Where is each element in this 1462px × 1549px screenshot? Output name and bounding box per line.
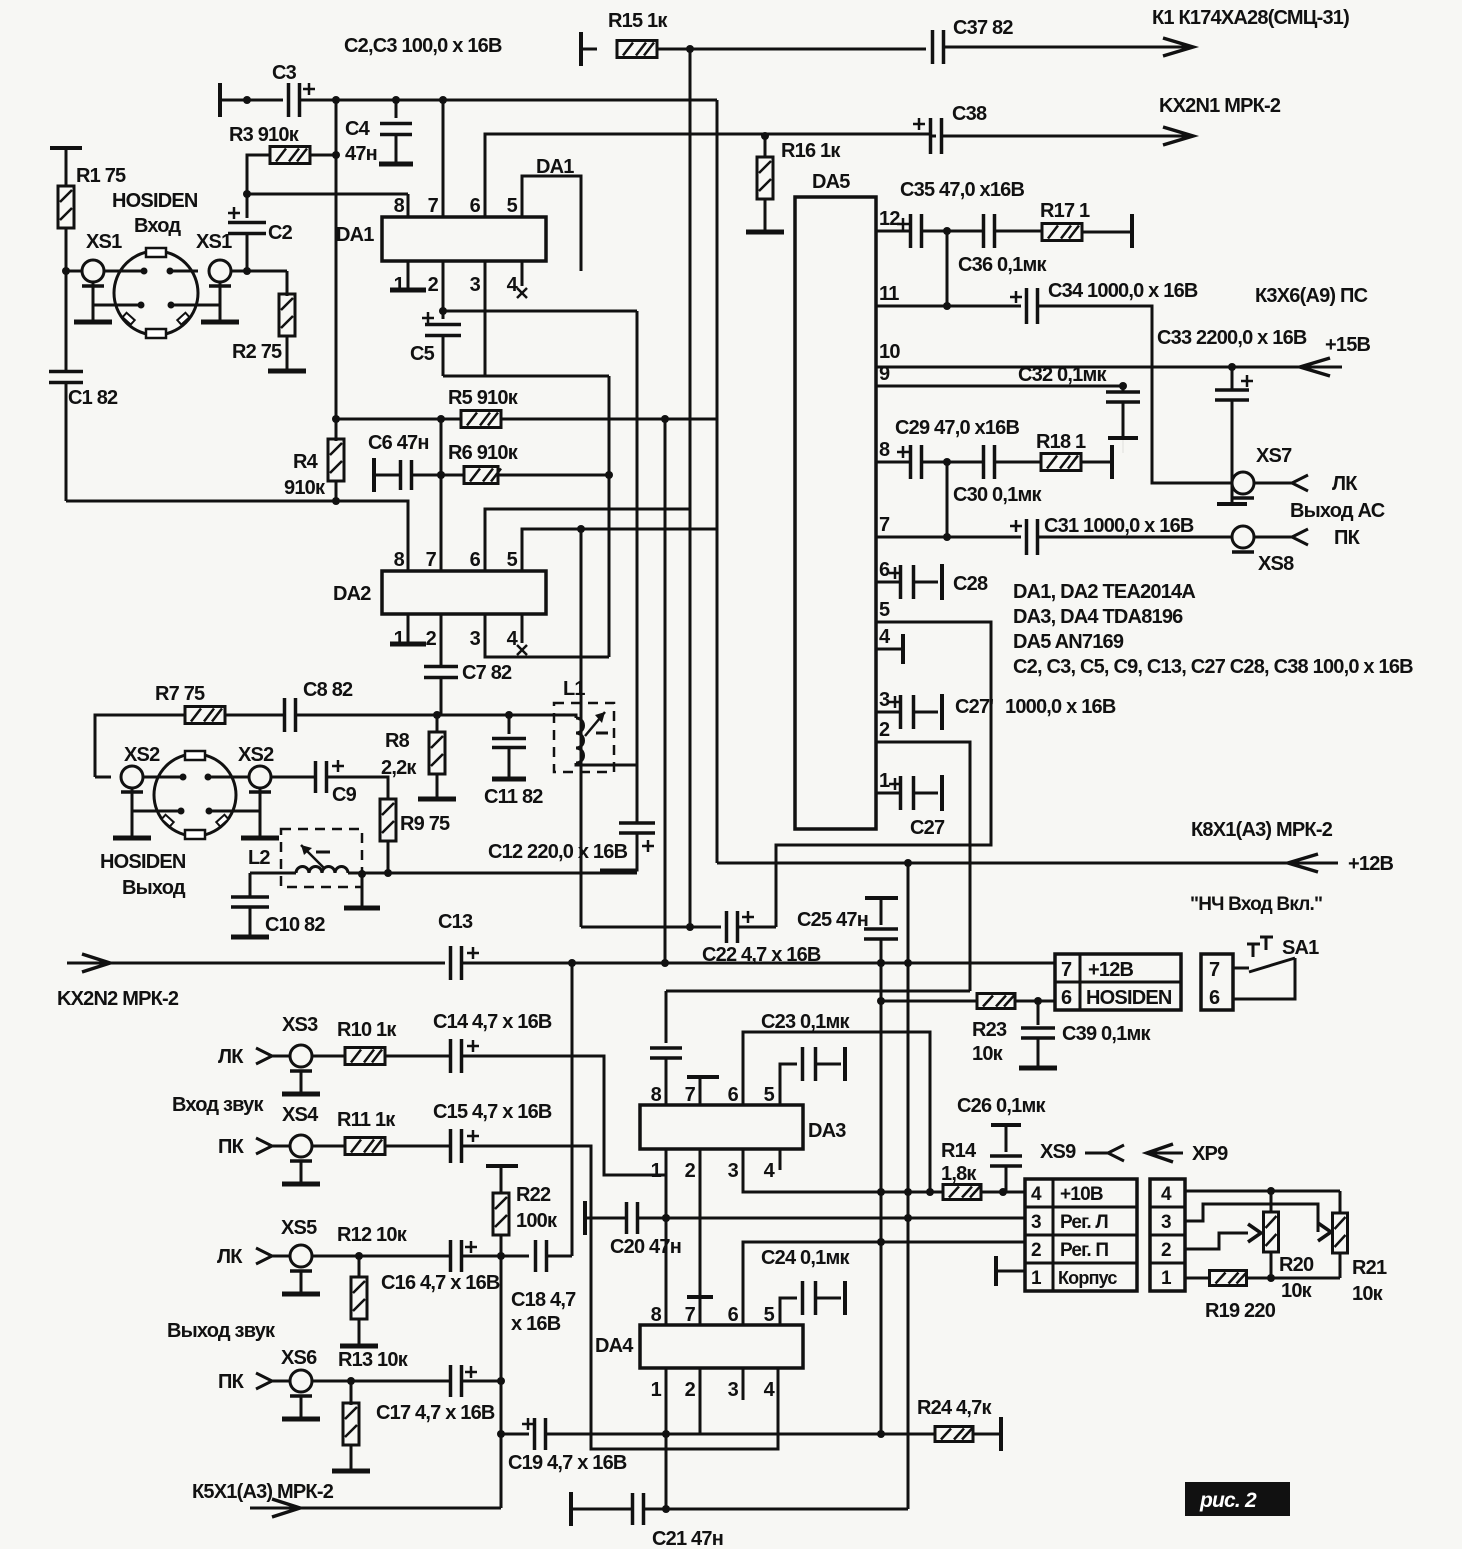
resistor R24 bbox=[935, 1427, 973, 1442]
resistor R10 bbox=[312, 1055, 345, 1058]
svg-text:XS9: XS9 bbox=[1040, 1141, 1076, 1163]
svg-text:XS3: XS3 bbox=[282, 1014, 318, 1036]
svg-text:11: 11 bbox=[879, 283, 899, 305]
DIN upper pins bbox=[141, 268, 148, 275]
svg-text:R24 4,7к: R24 4,7к bbox=[917, 1397, 992, 1419]
svg-text:HOSIDEN: HOSIDEN bbox=[100, 851, 186, 873]
svg-text:HOSIDEN: HOSIDEN bbox=[1086, 987, 1172, 1009]
svg-text:7: 7 bbox=[879, 514, 890, 536]
svg-text:100к: 100к bbox=[516, 1210, 558, 1232]
svg-text:К1 К174ХА28(СМЦ-31): К1 К174ХА28(СМЦ-31) bbox=[1152, 7, 1349, 29]
capacitor C24 bbox=[801, 1281, 805, 1315]
wire lower pins to grounds bbox=[132, 810, 181, 813]
DA5 pin7 wire to C31 bbox=[876, 536, 1021, 539]
svg-text:1000,0 х 16В: 1000,0 х 16В bbox=[1005, 696, 1116, 718]
connector XS2 DIN socket bbox=[154, 754, 236, 836]
svg-text:L2: L2 bbox=[248, 847, 270, 869]
DA4 pin 6 riser to connector row2 bbox=[743, 1242, 1025, 1325]
svg-text:DA3: DA3 bbox=[808, 1120, 846, 1142]
DA2 pin 3 bbox=[485, 614, 609, 657]
svg-text:C17 4,7 х 16В: C17 4,7 х 16В bbox=[376, 1402, 495, 1424]
svg-text:C3: C3 bbox=[272, 62, 297, 84]
svg-text:KX2N2 МРК-2: KX2N2 МРК-2 bbox=[57, 988, 179, 1010]
wire C1 row to DA2 pin8 bbox=[66, 501, 408, 571]
node XS1 row wire bbox=[66, 270, 82, 273]
capacitor C28 bbox=[899, 565, 903, 599]
svg-text:2: 2 bbox=[685, 1160, 696, 1182]
svg-text:C5: C5 bbox=[410, 343, 435, 365]
svg-text:C21 47н: C21 47н bbox=[652, 1528, 723, 1549]
ground under XS1 left bbox=[74, 320, 112, 325]
DA4 pin 5 riser to C24 bbox=[780, 1298, 797, 1325]
svg-text:XS1: XS1 bbox=[196, 231, 232, 253]
ground under XS1 right bbox=[201, 320, 239, 325]
resistor R5 bbox=[336, 418, 461, 421]
wire lower-right pin to ground bbox=[171, 304, 220, 307]
terminal bar left of C20 bbox=[583, 1201, 587, 1235]
wire C13 to connector row7 bbox=[462, 962, 1055, 965]
wire DA1 pin2 node to V637 bbox=[443, 310, 637, 313]
capacitor C12 bbox=[636, 311, 639, 822]
DA5 pin9 wire bbox=[876, 385, 1123, 388]
svg-text:C18 4,7: C18 4,7 bbox=[511, 1289, 576, 1311]
svg-text:7: 7 bbox=[685, 1304, 696, 1326]
capacitor C4 bbox=[395, 100, 398, 118]
connector XS1 DIN socket bbox=[114, 251, 198, 335]
svg-text:R8: R8 bbox=[385, 730, 410, 752]
resistor R9 bbox=[380, 799, 396, 841]
terminal bar after R24 bbox=[999, 1417, 1003, 1451]
svg-text:6: 6 bbox=[470, 549, 481, 571]
svg-text:4: 4 bbox=[764, 1379, 776, 1401]
svg-text:+12В: +12В bbox=[1088, 959, 1134, 981]
wire V717 top rail down to +12V rail bbox=[716, 100, 719, 863]
+12V rail wire bbox=[717, 862, 1338, 865]
capacitor C22 bbox=[725, 911, 729, 943]
svg-text:DA5: DA5 bbox=[812, 171, 850, 193]
connector XS1 right jack bbox=[209, 260, 231, 282]
svg-text:7: 7 bbox=[426, 549, 437, 571]
terminal bar left of C6 bbox=[372, 458, 376, 492]
svg-text:3: 3 bbox=[470, 628, 481, 650]
capacitor C33 bbox=[1231, 367, 1234, 389]
inductor L2 dashed box bbox=[281, 829, 362, 887]
capacitor C6 bbox=[374, 474, 400, 477]
svg-text:C15 4,7 х 16В: C15 4,7 х 16В bbox=[433, 1101, 552, 1123]
capacitor C18 bbox=[534, 1240, 538, 1272]
svg-text:C4: C4 bbox=[345, 118, 371, 140]
wire C16 to node 501 bbox=[462, 1255, 529, 1258]
svg-text:R4: R4 bbox=[293, 451, 319, 473]
svg-text:HOSIDEN: HOSIDEN bbox=[112, 190, 198, 212]
svg-text:6: 6 bbox=[1209, 987, 1220, 1009]
svg-text:С31 1000,0 х 16В: С31 1000,0 х 16В bbox=[1044, 515, 1194, 537]
svg-text:3: 3 bbox=[1031, 1212, 1041, 1233]
wire XS1 left to DIN bbox=[104, 270, 146, 273]
svg-text:2: 2 bbox=[879, 719, 890, 741]
connector XS7 bbox=[1232, 472, 1254, 494]
wire V609 to DA2 pin3 wire bbox=[608, 376, 611, 657]
connector XS2 right jack bbox=[249, 766, 271, 788]
capacitor C38 bbox=[929, 118, 933, 154]
svg-text:XP9: XP9 bbox=[1192, 1143, 1228, 1165]
svg-text:R14: R14 bbox=[941, 1140, 977, 1162]
svg-text:R2 75: R2 75 bbox=[232, 341, 282, 363]
resistor R16 bbox=[761, 132, 769, 140]
DA2 pin 2 bbox=[440, 614, 443, 667]
svg-text:1: 1 bbox=[1031, 1268, 1042, 1289]
ground under R2 bbox=[268, 369, 306, 374]
svg-text:R16 1к: R16 1к bbox=[781, 140, 841, 162]
wire V501 bbox=[500, 1256, 503, 1434]
DA1 pin 5 riser to V581 bbox=[522, 176, 581, 271]
capacitor C39 bbox=[1037, 1001, 1040, 1025]
svg-text:10: 10 bbox=[879, 341, 900, 363]
svg-text:С30 0,1мк: С30 0,1мк bbox=[953, 484, 1042, 506]
svg-text:10к: 10к bbox=[972, 1043, 1004, 1065]
svg-text:3: 3 bbox=[1161, 1212, 1171, 1233]
svg-text:R9 75: R9 75 bbox=[400, 813, 450, 835]
connector box XP 7/6 bbox=[1201, 954, 1233, 1010]
capacitor C26 bbox=[991, 1123, 1021, 1127]
resistor R8 bbox=[436, 715, 439, 733]
capacitor C16 bbox=[449, 1240, 453, 1272]
svg-text:XS2: XS2 bbox=[238, 744, 274, 766]
svg-text:8: 8 bbox=[651, 1084, 662, 1106]
svg-text:3: 3 bbox=[728, 1379, 739, 1401]
svg-text:8: 8 bbox=[394, 549, 405, 571]
amplifier DA5 box bbox=[795, 197, 876, 829]
svg-text:Рег. П: Рег. П bbox=[1060, 1240, 1108, 1261]
svg-text:XS5: XS5 bbox=[281, 1217, 317, 1239]
svg-text:R17 1: R17 1 bbox=[1040, 200, 1090, 222]
connector XS1 left jack bbox=[82, 260, 104, 282]
svg-text:5: 5 bbox=[507, 549, 518, 571]
svg-text:R3 910к: R3 910к bbox=[229, 124, 300, 146]
svg-text:R20: R20 bbox=[1279, 1254, 1314, 1276]
capacitor C21 bbox=[571, 1508, 632, 1511]
svg-text:+10В: +10В bbox=[1060, 1184, 1103, 1205]
capacitor C8 bbox=[283, 698, 287, 732]
svg-text:47н: 47н bbox=[345, 143, 377, 165]
capacitor C15 bbox=[449, 1129, 453, 1163]
svg-text:+15В: +15В bbox=[1325, 334, 1371, 356]
svg-text:ПК: ПК bbox=[1334, 527, 1361, 549]
svg-text:3: 3 bbox=[728, 1160, 739, 1182]
DIN2 lower pins bbox=[178, 808, 185, 815]
resistor R22 bbox=[486, 1164, 518, 1168]
DA1 pin 8 bbox=[407, 194, 410, 217]
svg-text:ЛК: ЛК bbox=[1332, 473, 1358, 495]
DA2 pin 1 ground bbox=[407, 614, 410, 644]
DA1 pin 4 nc bbox=[521, 261, 524, 286]
svg-text:XS4: XS4 bbox=[282, 1104, 319, 1126]
svg-text:3: 3 bbox=[470, 274, 481, 296]
capacitor C14 bbox=[449, 1039, 453, 1073]
svg-text:2: 2 bbox=[426, 628, 437, 650]
wire C31 to XS8 bbox=[1038, 536, 1232, 539]
svg-text:XS2: XS2 bbox=[124, 744, 160, 766]
svg-text:6: 6 bbox=[470, 195, 481, 217]
svg-text:10к: 10к bbox=[1281, 1280, 1313, 1302]
XS9 XP9 mating symbols bbox=[1108, 1145, 1124, 1161]
svg-text:C14 4,7 х 16В: C14 4,7 х 16В bbox=[433, 1011, 552, 1033]
svg-text:R18 1: R18 1 bbox=[1036, 431, 1086, 453]
svg-text:ЛК: ЛК bbox=[218, 1046, 244, 1068]
L1 tuning arrow bbox=[585, 712, 605, 736]
DA2 pin 5 riser bbox=[522, 529, 717, 571]
svg-text:C20 47н: C20 47н bbox=[610, 1236, 681, 1258]
svg-text:7: 7 bbox=[1209, 959, 1220, 981]
svg-text:R12 10к: R12 10к bbox=[337, 1224, 408, 1246]
svg-text:Вход звук: Вход звук bbox=[172, 1094, 264, 1116]
svg-text:8: 8 bbox=[394, 195, 405, 217]
resistor R6 bbox=[464, 467, 498, 484]
svg-text:1: 1 bbox=[651, 1379, 662, 1401]
DA1 pin 2 bbox=[442, 261, 445, 311]
resistor R23 bbox=[877, 997, 885, 1005]
DA5 pin10 +15V rail bbox=[876, 366, 1342, 369]
svg-text:2: 2 bbox=[428, 274, 439, 296]
DA5 pin1 wire bbox=[876, 792, 901, 795]
wire L2 node to C12 bbox=[388, 872, 637, 875]
terminal bar after R17 bbox=[1130, 214, 1134, 248]
resistor R11 bbox=[312, 1145, 345, 1148]
svg-text:Выход звук: Выход звук bbox=[167, 1320, 276, 1342]
+12V arrow bbox=[1288, 854, 1318, 872]
wire C37 to K1 arrow bbox=[944, 46, 1193, 49]
capacitor C11 bbox=[508, 715, 511, 734]
svg-text:Выход: Выход bbox=[122, 877, 186, 899]
resistor R3 bbox=[270, 147, 310, 164]
svg-text:R7 75: R7 75 bbox=[155, 683, 205, 705]
capacitor C2 bbox=[246, 194, 249, 218]
capacitor C34 bbox=[1025, 288, 1029, 324]
svg-text:XS8: XS8 bbox=[1258, 553, 1294, 575]
XP9 row2 wire to R20 wiper bbox=[1185, 1233, 1248, 1249]
node wire C2 to DA1 pin8 bbox=[247, 193, 408, 196]
wire R3 left branch bbox=[247, 155, 270, 194]
capacitor C20 bbox=[585, 1217, 626, 1220]
svg-text:6: 6 bbox=[728, 1084, 739, 1106]
terminal bar left of C21 bbox=[569, 1492, 573, 1526]
svg-text:6: 6 bbox=[1061, 987, 1072, 1009]
svg-text:С35 47,0 х16В: С35 47,0 х16В bbox=[900, 179, 1024, 201]
svg-text:SA1: SA1 bbox=[1282, 937, 1319, 959]
svg-text:2: 2 bbox=[1161, 1240, 1171, 1261]
svg-text:К5Х1(А3) МРК-2: К5Х1(А3) МРК-2 bbox=[192, 1481, 334, 1503]
svg-text:C23 0,1мк: C23 0,1мк bbox=[761, 1011, 850, 1033]
KX2N2 input arrow wire bbox=[67, 962, 445, 965]
DIN2 upper pins bbox=[180, 774, 187, 781]
resistor R18 bbox=[1041, 454, 1081, 471]
wire C34 to XS7 bbox=[1038, 306, 1232, 483]
svg-text:4: 4 bbox=[764, 1160, 776, 1182]
wire V947 pin12 to pin11 bbox=[946, 231, 949, 306]
svg-text:7: 7 bbox=[428, 195, 439, 217]
svg-text:C24 0,1мк: C24 0,1мк bbox=[761, 1247, 850, 1269]
capacitor C30 bbox=[982, 445, 986, 479]
svg-text:C9: C9 bbox=[332, 784, 357, 806]
wire XS1 right to C2 node bbox=[231, 270, 287, 273]
svg-text:C8 82: C8 82 bbox=[303, 679, 353, 701]
DA2 pin 7 riser bbox=[440, 419, 443, 571]
svg-text:С33 2200,0 х 16В: С33 2200,0 х 16В bbox=[1157, 327, 1307, 349]
DA1 pin 6 riser to C38 net bbox=[485, 134, 930, 217]
wire XS5 to C16 bbox=[312, 1255, 450, 1258]
capacitor C13 bbox=[449, 946, 453, 980]
terminal bar after R18 bbox=[1110, 445, 1114, 479]
svg-text:К8Х1(А3) МРК-2: К8Х1(А3) МРК-2 bbox=[1191, 819, 1333, 841]
svg-text:R13 10к: R13 10к bbox=[338, 1349, 409, 1371]
svg-text:DA1: DA1 bbox=[336, 224, 374, 246]
op-amp DA2 box bbox=[382, 571, 546, 614]
DA5 pin8 wire bbox=[876, 461, 910, 464]
terminal bar left of R15 bbox=[579, 32, 583, 66]
capacitor C25 bbox=[865, 896, 898, 900]
terminal bar left of C3 bbox=[218, 83, 222, 117]
svg-text:7: 7 bbox=[685, 1084, 696, 1106]
svg-text:910к: 910к bbox=[284, 477, 326, 499]
svg-text:C13: C13 bbox=[438, 911, 473, 933]
svg-text:х 16В: х 16В bbox=[511, 1313, 561, 1335]
wire C14 to DA3 pin1 col bbox=[462, 1056, 666, 1175]
svg-text:7: 7 bbox=[1061, 959, 1072, 981]
switch IC DA4 box bbox=[640, 1325, 803, 1368]
svg-text:DA5 AN7169: DA5 AN7169 bbox=[1013, 631, 1124, 653]
ground bar for Korpus row bbox=[994, 1256, 998, 1286]
svg-text:1: 1 bbox=[879, 770, 890, 792]
svg-text:4: 4 bbox=[1161, 1184, 1172, 1205]
op-amp DA1 box bbox=[382, 217, 546, 261]
svg-text:4: 4 bbox=[507, 274, 519, 296]
svg-text:Вход: Вход bbox=[134, 215, 181, 237]
svg-text:C27': C27' bbox=[955, 696, 993, 718]
resistor R14 bbox=[943, 1185, 981, 1200]
connector box XS +12V/HOSIDEN bbox=[1055, 954, 1181, 1010]
resistor R1 bbox=[50, 146, 82, 150]
capacitor C5 bbox=[439, 307, 447, 315]
svg-text:8: 8 bbox=[879, 439, 890, 461]
svg-text:C7 82: C7 82 bbox=[462, 662, 512, 684]
svg-text:1: 1 bbox=[651, 1160, 662, 1182]
capacitor C27' bbox=[899, 695, 903, 729]
capacitor C37 bbox=[931, 30, 935, 64]
wire C17 to V501 bbox=[462, 1380, 501, 1383]
svg-text:2: 2 bbox=[685, 1379, 696, 1401]
inductor L1 coil bbox=[554, 715, 576, 718]
XP9 row3 wire to R21 wiper bbox=[1185, 1204, 1318, 1232]
DA2 pin 4 nc bbox=[521, 614, 524, 643]
wire V572 down to C18 bbox=[571, 963, 574, 1256]
svg-text:6: 6 bbox=[728, 1304, 739, 1326]
svg-text:С36 0,1мк: С36 0,1мк bbox=[958, 254, 1047, 276]
svg-text:5: 5 bbox=[764, 1084, 775, 1106]
capacitor C7 bbox=[424, 665, 458, 669]
svg-text:"НЧ Вход Вкл.": "НЧ Вход Вкл." bbox=[1190, 894, 1322, 915]
wire C15 to DA4 pin4 staple bbox=[462, 1146, 778, 1449]
DA1 pin 7 bbox=[442, 100, 445, 217]
DA5 pin3 wire bbox=[876, 711, 901, 714]
capacitor C9 bbox=[271, 776, 315, 779]
svg-text:R1 75: R1 75 bbox=[76, 165, 126, 187]
capacitor C35 bbox=[909, 214, 913, 248]
capacitor C29 bbox=[909, 445, 913, 479]
resistor R7 bbox=[95, 715, 185, 777]
capacitor C31 bbox=[1025, 519, 1029, 555]
wire C5 bottom to V609 bbox=[443, 375, 609, 378]
capacitor C36 bbox=[982, 214, 986, 248]
svg-text:К3Х6(А9) ПС: К3Х6(А9) ПС bbox=[1255, 285, 1368, 307]
figure label ris.2 bbox=[1185, 1482, 1290, 1516]
wire V689 R15 node down to C22 net bbox=[689, 49, 692, 927]
connector XP9 box bbox=[1150, 1179, 1185, 1291]
DA5 pin11 wire to C34 bbox=[876, 305, 1021, 308]
resistor R19 bbox=[1185, 1277, 1210, 1280]
svg-text:ПК: ПК bbox=[218, 1136, 245, 1158]
capacitor C17 bbox=[449, 1365, 453, 1397]
svg-text:10к: 10к bbox=[1352, 1283, 1384, 1305]
svg-text:С34 1000,0 х 16В: С34 1000,0 х 16В bbox=[1048, 280, 1198, 302]
wire V665 bbox=[664, 419, 667, 963]
connector XS2 left jack bbox=[121, 766, 143, 788]
+15V arrow bbox=[1300, 358, 1330, 376]
svg-text:C27: C27 bbox=[910, 817, 945, 839]
svg-text:C39 0,1мк: C39 0,1мк bbox=[1062, 1023, 1151, 1045]
svg-text:1: 1 bbox=[394, 274, 405, 296]
svg-text:C1 82: C1 82 bbox=[68, 387, 118, 409]
svg-text:5: 5 bbox=[507, 195, 518, 217]
svg-text:L1: L1 bbox=[563, 678, 585, 700]
svg-text:Выход АС: Выход АС bbox=[1290, 500, 1385, 522]
svg-text:C11 82: C11 82 bbox=[484, 786, 543, 808]
svg-text:рис. 2: рис. 2 bbox=[1199, 1489, 1257, 1512]
svg-text:3: 3 bbox=[879, 689, 890, 711]
svg-text:С37 82: С37 82 bbox=[953, 17, 1013, 39]
svg-text:C10 82: C10 82 bbox=[265, 914, 325, 936]
resistor R21 pot bbox=[1339, 1191, 1342, 1213]
svg-text:4: 4 bbox=[1031, 1184, 1042, 1205]
wire top rail y=100 bbox=[336, 99, 717, 102]
DA1 pin 3 bbox=[484, 261, 487, 376]
capacitor C32 bbox=[1122, 386, 1125, 391]
wire C38 rail bbox=[930, 135, 936, 138]
wire V947b pin8 to pin7 bbox=[946, 462, 949, 537]
svg-text:C12 220,0 х 16В: C12 220,0 х 16В bbox=[488, 841, 628, 863]
svg-text:XS7: XS7 bbox=[1256, 445, 1292, 467]
DIN lower pins bbox=[138, 302, 145, 309]
wire pin8 node to DA5 pin2 column bbox=[666, 990, 970, 993]
svg-text:С29 47,0 х16В: С29 47,0 х16В bbox=[895, 417, 1019, 439]
svg-text:C2: C2 bbox=[268, 222, 293, 244]
svg-text:R15 1к: R15 1к bbox=[608, 10, 668, 32]
svg-text:C2, C3, C5, C9, C13, C27 С28,: C2, C3, C5, C9, C13, C27 С28, С38 100,0 … bbox=[1013, 656, 1413, 678]
svg-text:5: 5 bbox=[879, 599, 890, 621]
svg-text:R11 1к: R11 1к bbox=[337, 1109, 396, 1131]
DA2 pin 6 riser bbox=[485, 509, 690, 571]
wire XS6 to C17 bbox=[312, 1380, 450, 1383]
wire C9 to R9 bbox=[327, 777, 388, 799]
svg-text:ЛК: ЛК bbox=[217, 1246, 243, 1268]
svg-text:C16 4,7 х 16В: C16 4,7 х 16В bbox=[381, 1272, 500, 1294]
resistor R20 pot bbox=[1270, 1191, 1273, 1212]
inductor L2 coil bbox=[250, 872, 296, 875]
svg-text:R6 910к: R6 910к bbox=[448, 442, 519, 464]
wire L2 right branch to ground bbox=[358, 870, 366, 878]
svg-text:C38: C38 bbox=[952, 103, 987, 125]
svg-text:Рег. Л: Рег. Л bbox=[1060, 1212, 1108, 1233]
svg-text:R23: R23 bbox=[972, 1019, 1007, 1041]
